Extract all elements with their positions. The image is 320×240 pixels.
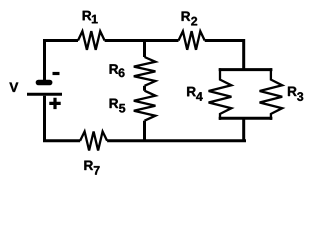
wire: bottom run to right [107,139,246,142]
wire: top bar of parallel R4/R3 [219,68,273,71]
resistor R3 [260,68,283,120]
battery V: positive long thin plate [27,93,62,96]
wire: left vertical + top-left run [45,41,79,83]
wire: middle branch down to bottom wire [143,121,146,141]
wire: junction between R6 and R5 [143,86,146,91]
resistor R4 [209,68,232,120]
resistor R7 [80,132,107,151]
battery minus sign [53,72,60,75]
label R1 [83,11,98,23]
label R6 [110,64,125,77]
label R3 [288,87,303,101]
label R5 [110,99,126,113]
label V [9,83,18,92]
resistor R5 [134,91,156,121]
battery plus sign [49,98,60,109]
battery V: negative short thick plate [38,80,49,86]
wire: bottom bar of parallel R4/R3 [219,117,273,120]
resistor R2 [179,31,205,50]
wire: left vertical below battery [45,96,81,141]
wire: parallel section down to bottom wire [242,118,245,141]
resistor R6 [134,57,156,86]
label R2 [182,12,198,26]
wire: top-right corner down to parallel section [205,41,244,70]
label R7 [84,161,99,175]
wire: top middle segment [105,39,179,42]
resistor R1 [78,31,105,50]
wire: middle branch stub from top wire [143,41,146,58]
label R4 [187,87,202,101]
